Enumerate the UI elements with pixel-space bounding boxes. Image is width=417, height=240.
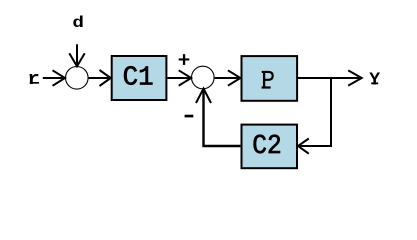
- svg-text:C2: C2: [252, 132, 282, 162]
- svg-text:C1: C1: [123, 64, 154, 94]
- svg-text:Y: Y: [369, 71, 380, 91]
- svg-text:d: d: [72, 14, 84, 32]
- svg-text:r: r: [27, 70, 40, 90]
